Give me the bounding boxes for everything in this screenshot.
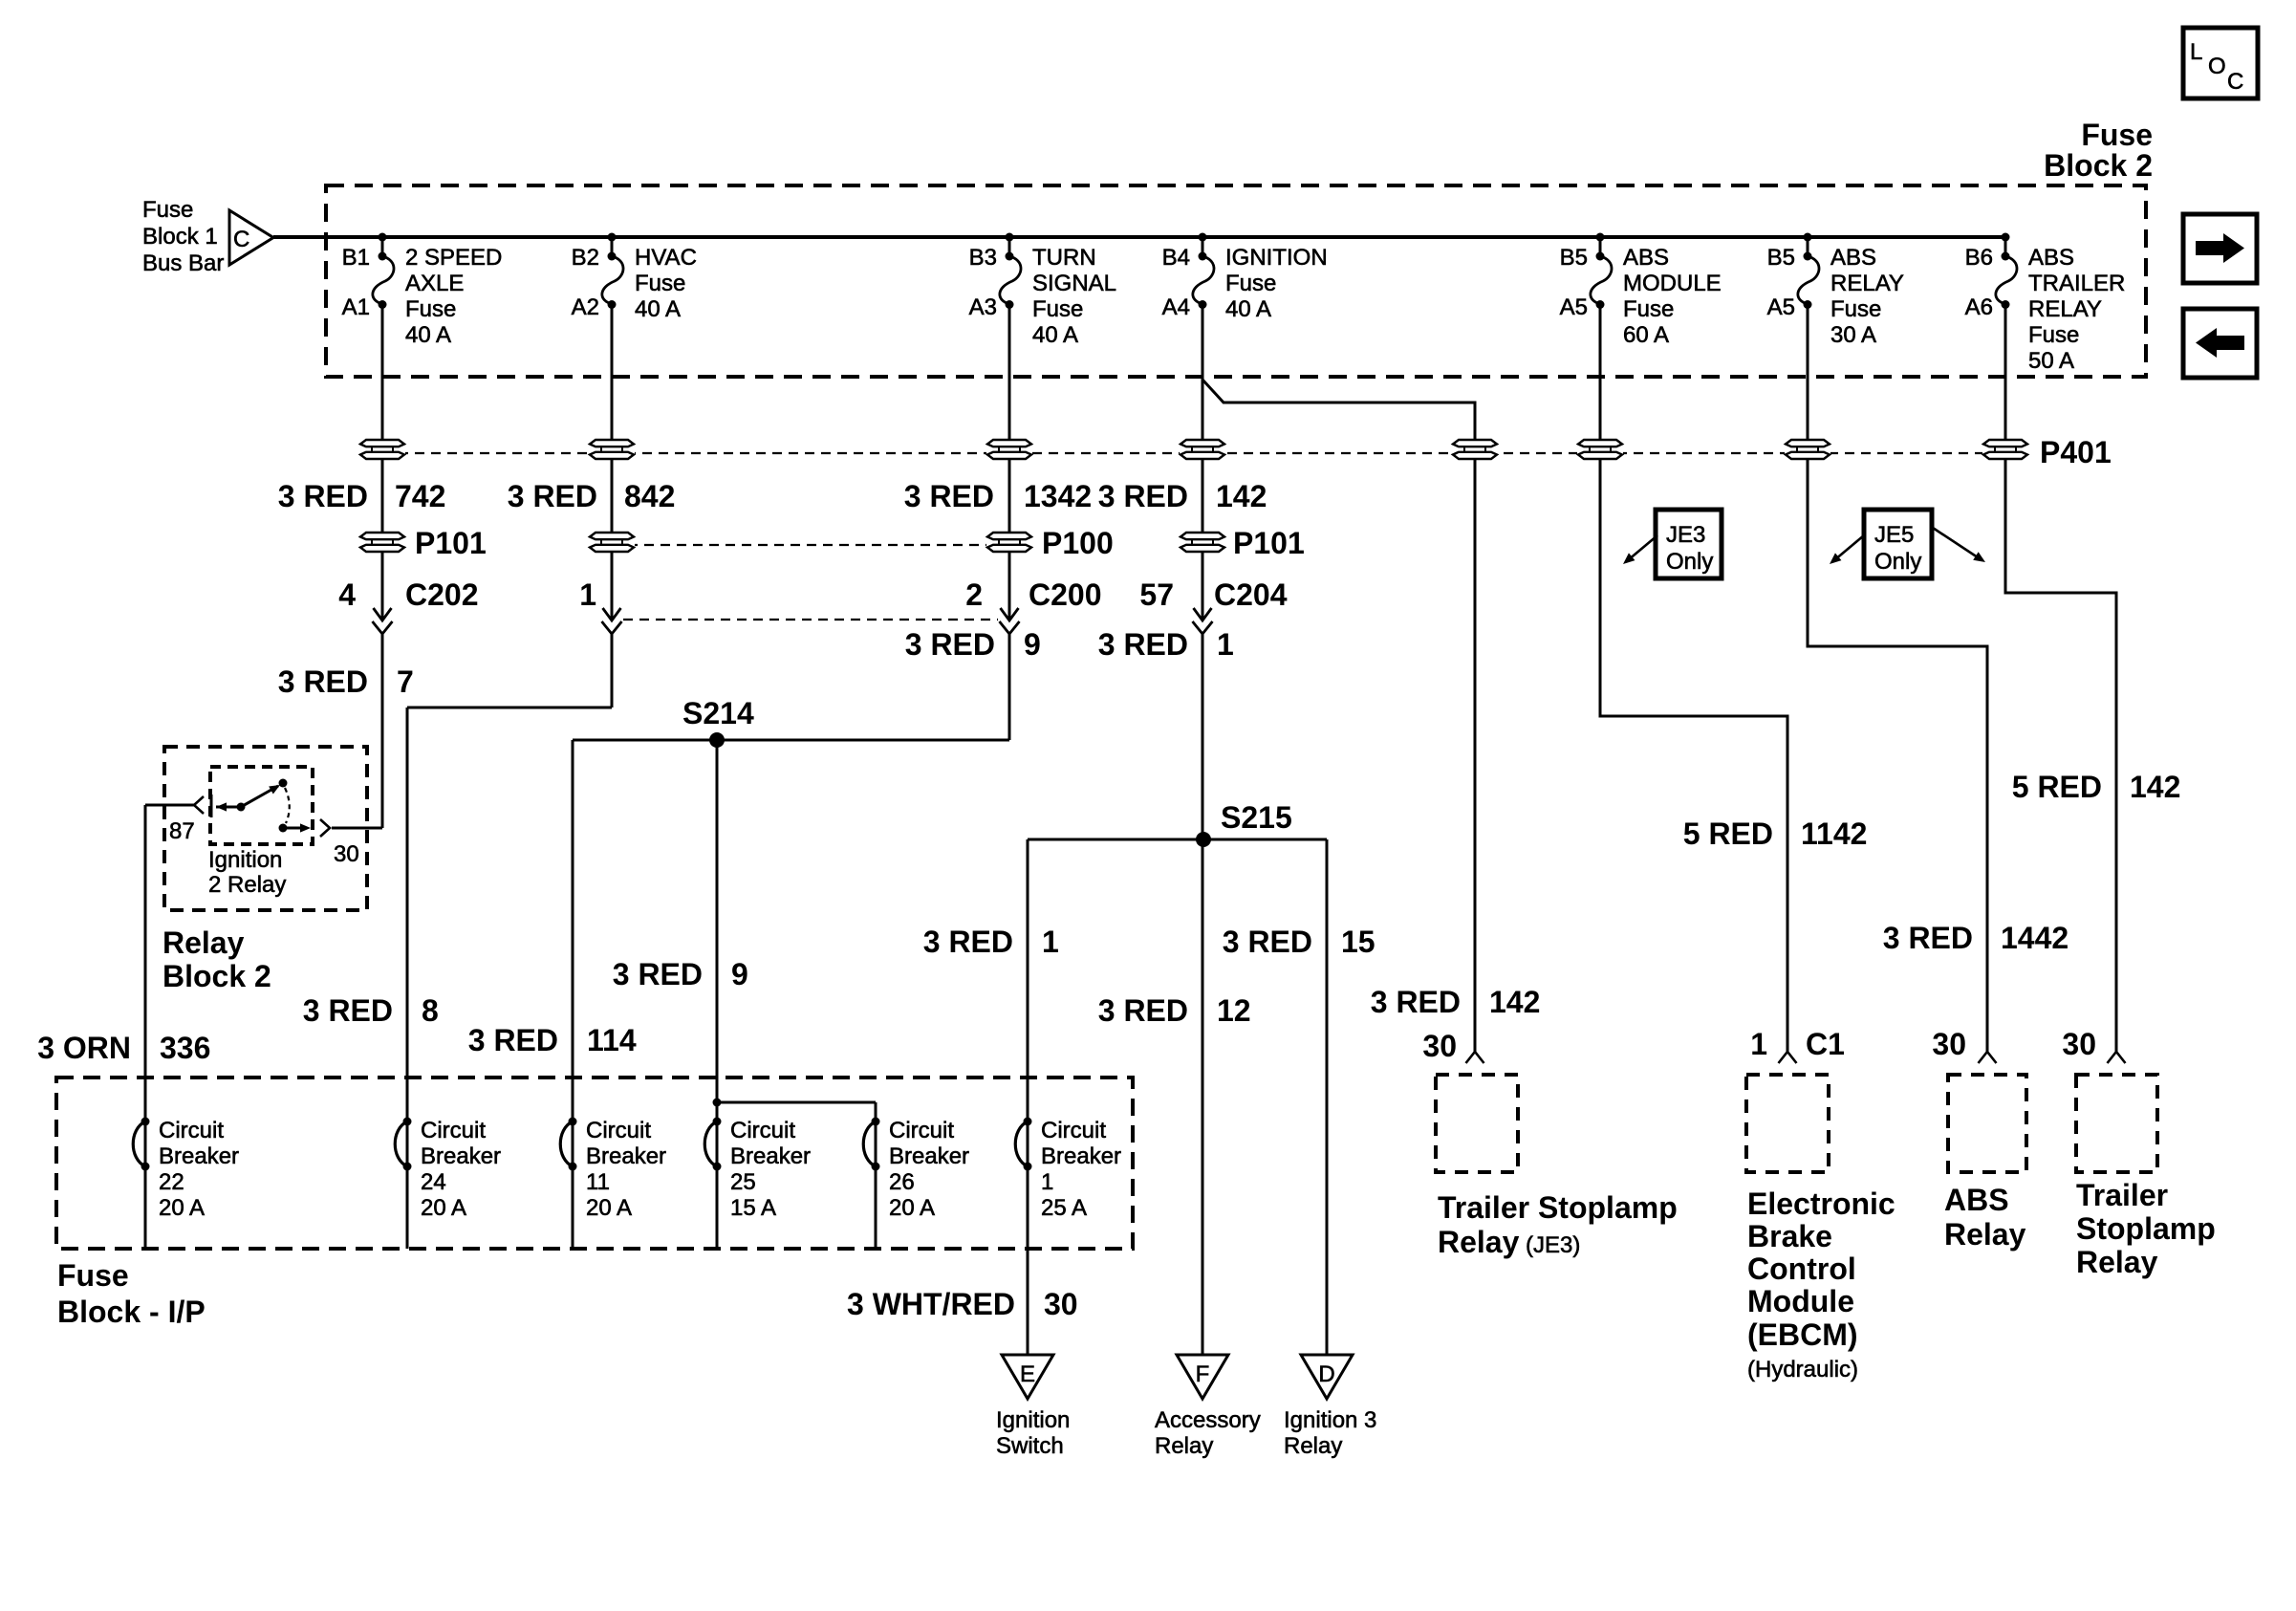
P100 dashed link	[612, 544, 1009, 546]
svg-text:P101: P101	[1233, 526, 1305, 560]
svg-text:842: 842	[624, 479, 675, 513]
svg-text:Fuse: Fuse	[57, 1258, 129, 1293]
svg-text:5 RED: 5 RED	[2012, 770, 2102, 804]
svg-text:A4: A4	[1162, 294, 1190, 320]
svg-text:Fuse: Fuse	[1032, 296, 1083, 322]
svg-text:Fuse: Fuse	[1623, 296, 1674, 322]
svg-text:Accessory: Accessory	[1155, 1407, 1261, 1433]
wire S214 down	[716, 740, 719, 1249]
svg-text:7: 7	[397, 664, 414, 699]
svg-text:(EBCM): (EBCM)	[1747, 1317, 1858, 1352]
svg-text:C204: C204	[1214, 577, 1288, 612]
svg-text:Block 2: Block 2	[162, 959, 271, 993]
svg-text:11: 11	[586, 1169, 610, 1195]
svg-text:1: 1	[1217, 627, 1234, 662]
fuse F3 TURN	[969, 233, 1116, 349]
svg-text:24: 24	[421, 1169, 446, 1195]
svg-text:114: 114	[587, 1023, 637, 1057]
connector P401 at x1674	[1577, 439, 1623, 460]
svg-text:Relay: Relay	[1155, 1433, 1213, 1459]
svg-text:C: C	[233, 227, 249, 252]
svg-text:30: 30	[334, 841, 359, 867]
svg-text:30: 30	[1422, 1029, 1457, 1063]
svg-text:3 RED: 3 RED	[1098, 993, 1188, 1028]
svg-text:Breaker: Breaker	[1041, 1143, 1121, 1169]
connector P401 at x2098	[1982, 439, 2028, 460]
connector P401 at x1258	[1180, 439, 1225, 460]
svg-text:Relay: Relay	[1438, 1225, 1520, 1259]
svg-text:9: 9	[1024, 627, 1041, 662]
relay movable contact	[237, 803, 246, 812]
svg-text:26: 26	[889, 1169, 915, 1195]
fuse F2 HVAC	[572, 233, 697, 323]
svg-text:40 A: 40 A	[635, 296, 681, 322]
inline connector at x640	[603, 608, 621, 620]
wire fuse5 branch	[1599, 237, 1602, 256]
svg-text:HVAC: HVAC	[635, 245, 697, 271]
svg-text:3 RED: 3 RED	[904, 479, 994, 513]
wire fuse1 branch	[381, 237, 384, 256]
connector P401 at x1056	[986, 439, 1032, 460]
circuit breaker 26	[863, 1118, 969, 1222]
trailer stoplamp relay JE3 box	[1466, 1052, 1484, 1063]
circuit breaker 11	[560, 1118, 666, 1222]
svg-text:142: 142	[1489, 985, 1540, 1019]
svg-text:3 RED: 3 RED	[1098, 627, 1188, 662]
svg-text:22: 22	[159, 1169, 184, 1195]
svg-text:40 A: 40 A	[1032, 322, 1078, 348]
svg-text:O: O	[2208, 54, 2226, 79]
svg-text:Fuse: Fuse	[2028, 322, 2079, 348]
svg-text:15: 15	[1341, 925, 1375, 959]
svg-text:25: 25	[730, 1169, 756, 1195]
JE5 pointer arrow left	[1834, 535, 1864, 560]
svg-text:MODULE: MODULE	[1623, 271, 1722, 296]
svg-text:RELAY: RELAY	[1830, 271, 1904, 296]
relay pin 87 terminal	[194, 796, 204, 814]
svg-text:E: E	[1020, 1361, 1035, 1387]
svg-text:C200: C200	[1029, 577, 1102, 612]
trailer stoplamp relay box	[2108, 1052, 2126, 1063]
svg-text:Brake: Brake	[1747, 1219, 1832, 1253]
fuse block 2 box	[326, 185, 2146, 377]
circuit breaker 22	[133, 1118, 239, 1222]
svg-text:F: F	[1196, 1361, 1210, 1387]
svg-text:TURN: TURN	[1032, 245, 1096, 271]
svg-text:60 A: 60 A	[1623, 322, 1669, 348]
svg-text:9: 9	[731, 957, 748, 991]
svg-text:A1: A1	[342, 294, 370, 320]
wire CB25-CB26 jumper	[717, 1101, 876, 1104]
svg-text:B3: B3	[969, 245, 997, 271]
off-page connector C	[229, 210, 273, 265]
svg-text:25 A: 25 A	[1041, 1195, 1087, 1221]
fuse F7 ABS	[1965, 233, 2126, 375]
EBCM box	[1779, 1052, 1797, 1063]
svg-text:1: 1	[1750, 1027, 1767, 1061]
svg-text:3 RED: 3 RED	[278, 664, 368, 699]
JE5 pointer arrow right	[1933, 528, 1981, 559]
svg-text:50 A: 50 A	[2028, 348, 2074, 374]
svg-text:C1: C1	[1806, 1027, 1845, 1061]
svg-text:3 RED: 3 RED	[1883, 921, 1973, 955]
JE3 pointer arrow	[1628, 535, 1657, 560]
svg-text:30: 30	[1932, 1027, 1966, 1061]
circuit breaker 1	[1015, 1118, 1121, 1222]
svg-text:D: D	[1318, 1361, 1334, 1387]
svg-text:Circuit: Circuit	[586, 1118, 651, 1143]
connector P401 at x400	[359, 439, 405, 460]
svg-text:A5: A5	[1560, 294, 1588, 320]
svg-text:3 RED: 3 RED	[508, 479, 597, 513]
svg-text:Fuse: Fuse	[405, 296, 456, 322]
svg-text:1342: 1342	[1024, 479, 1092, 513]
svg-text:3 RED: 3 RED	[468, 1023, 558, 1057]
connector P401 at x1891	[1785, 439, 1830, 460]
wire fuse4 diagonal to JE3 relay	[1202, 380, 1475, 1052]
svg-text:Ignition: Ignition	[208, 847, 282, 873]
relay block 2 outer box	[164, 747, 367, 910]
svg-text:Relay: Relay	[1284, 1433, 1342, 1459]
node S214	[709, 732, 725, 748]
svg-text:2 Relay: 2 Relay	[208, 872, 286, 898]
connector P401 at x1543	[1452, 439, 1498, 460]
svg-text:15 A: 15 A	[730, 1195, 776, 1221]
svg-text:Switch: Switch	[996, 1433, 1064, 1459]
off-page connector F	[1177, 1355, 1228, 1399]
node S215	[1196, 832, 1211, 847]
svg-text:1: 1	[1042, 925, 1059, 959]
svg-text:B1: B1	[342, 245, 370, 271]
svg-text:Trailer: Trailer	[2076, 1178, 2168, 1212]
svg-text:Control: Control	[1747, 1252, 1856, 1286]
inline connector at x400	[374, 608, 392, 620]
wire fuse2 branch	[611, 237, 614, 256]
svg-text:2 SPEED: 2 SPEED	[405, 245, 502, 271]
svg-text:IGNITION: IGNITION	[1225, 245, 1328, 271]
svg-text:1: 1	[1041, 1169, 1053, 1195]
LOC box	[2183, 28, 2258, 98]
wire S214 bar	[573, 739, 1009, 742]
svg-text:Fuse: Fuse	[635, 271, 685, 296]
svg-text:Fuse: Fuse	[1225, 271, 1276, 296]
svg-text:Relay: Relay	[1944, 1217, 2026, 1252]
svg-text:AXLE: AXLE	[405, 271, 464, 296]
svg-text:20 A: 20 A	[421, 1195, 466, 1221]
svg-text:SIGNAL: SIGNAL	[1032, 271, 1116, 296]
fuse F5 ABS	[1560, 233, 1722, 349]
svg-text:3 ORN: 3 ORN	[37, 1031, 131, 1065]
off-page connector E	[1002, 1355, 1053, 1399]
svg-text:Fuse: Fuse	[2081, 118, 2153, 152]
svg-text:Block - I/P: Block - I/P	[57, 1295, 206, 1329]
svg-text:3 RED: 3 RED	[1371, 985, 1461, 1019]
svg-text:Ignition 3: Ignition 3	[1284, 1407, 1376, 1433]
wire fuse3 branch	[1008, 237, 1011, 256]
svg-text:A2: A2	[572, 294, 599, 320]
svg-text:B5: B5	[1767, 245, 1795, 271]
svg-text:JE5: JE5	[1874, 522, 1914, 548]
svg-text:30: 30	[1044, 1287, 1078, 1321]
fuse F1 2 SPEED	[342, 233, 503, 349]
svg-text:A6: A6	[1965, 294, 1993, 320]
JE3 Only box	[1656, 510, 1722, 578]
svg-text:142: 142	[2130, 770, 2180, 804]
right arrow box	[2183, 214, 2257, 283]
svg-text:5 RED: 5 RED	[1683, 816, 1773, 851]
svg-text:3 RED: 3 RED	[613, 957, 703, 991]
svg-text:ABS: ABS	[1623, 245, 1669, 271]
svg-text:1: 1	[579, 577, 596, 612]
ABS relay box	[1979, 1052, 1997, 1063]
svg-text:Module: Module	[1747, 1284, 1854, 1318]
svg-text:(JE3): (JE3)	[1526, 1232, 1580, 1258]
svg-text:S214: S214	[682, 696, 754, 730]
svg-text:Fuse: Fuse	[142, 197, 193, 223]
ignition 2 relay inner box	[210, 767, 313, 844]
svg-text:Breaker: Breaker	[586, 1143, 666, 1169]
wire fuse7 branch	[2004, 237, 2007, 256]
svg-text:(Hydraulic): (Hydraulic)	[1747, 1357, 1858, 1382]
svg-text:Circuit: Circuit	[889, 1118, 954, 1143]
fuse block I/P box	[56, 1078, 1133, 1249]
inline connector at x1056	[1001, 608, 1019, 620]
wire relay30 to wire1	[332, 827, 382, 830]
svg-text:P101: P101	[415, 526, 487, 560]
JE5 Only box	[1864, 510, 1932, 578]
svg-text:TRAILER: TRAILER	[2028, 271, 2125, 296]
svg-text:57: 57	[1139, 577, 1174, 612]
svg-text:Breaker: Breaker	[159, 1143, 239, 1169]
P401 dashed link	[382, 452, 2005, 454]
svg-text:Only: Only	[1666, 549, 1713, 575]
svg-text:P401: P401	[2040, 435, 2112, 469]
svg-text:A5: A5	[1767, 294, 1795, 320]
svg-text:ABS: ABS	[1830, 245, 1876, 271]
svg-text:3 RED: 3 RED	[278, 479, 368, 513]
svg-text:Breaker: Breaker	[730, 1143, 811, 1169]
relay dashed throw arc	[285, 788, 290, 823]
svg-text:ABS: ABS	[1944, 1183, 2009, 1217]
svg-text:Circuit: Circuit	[1041, 1118, 1106, 1143]
svg-text:Relay: Relay	[162, 925, 245, 960]
connector P401 at x640	[589, 439, 635, 460]
svg-text:336: 336	[160, 1031, 210, 1065]
connector P10x at x640	[589, 532, 635, 553]
svg-text:4: 4	[338, 577, 356, 612]
connector P10x at x400	[359, 532, 405, 553]
svg-text:20 A: 20 A	[159, 1195, 205, 1221]
relay pin 30 terminal	[279, 824, 288, 833]
svg-text:Trailer Stoplamp: Trailer Stoplamp	[1438, 1190, 1678, 1225]
circuit breaker 25	[704, 1118, 811, 1222]
C-row dashed link	[623, 619, 998, 620]
svg-text:B2: B2	[572, 245, 599, 271]
svg-text:Block 2: Block 2	[2044, 148, 2153, 183]
svg-text:742: 742	[395, 479, 445, 513]
svg-text:Circuit: Circuit	[730, 1118, 795, 1143]
svg-text:2: 2	[965, 577, 983, 612]
wire fuse4 branch	[1202, 237, 1204, 256]
svg-text:C202: C202	[405, 577, 479, 612]
svg-text:30 A: 30 A	[1830, 322, 1876, 348]
left arrow box	[2183, 309, 2257, 378]
svg-text:Relay: Relay	[2076, 1245, 2158, 1279]
svg-text:40 A: 40 A	[405, 322, 451, 348]
bus bar wire	[273, 235, 2005, 239]
fuse F6 ABS	[1767, 233, 1904, 349]
connector P10x at x1258	[1180, 532, 1225, 553]
svg-text:Breaker: Breaker	[421, 1143, 501, 1169]
off-page connector D	[1301, 1355, 1353, 1399]
svg-text:RELAY: RELAY	[2028, 296, 2102, 322]
svg-text:3 RED: 3 RED	[923, 925, 1013, 959]
svg-text:B6: B6	[1965, 245, 1993, 271]
svg-text:P100: P100	[1042, 526, 1114, 560]
svg-text:20 A: 20 A	[586, 1195, 632, 1221]
svg-text:3 RED: 3 RED	[905, 627, 995, 662]
svg-text:S215: S215	[1221, 800, 1292, 835]
svg-text:Only: Only	[1874, 549, 1921, 575]
svg-text:87: 87	[169, 818, 195, 844]
svg-text:JE3: JE3	[1666, 522, 1705, 548]
svg-text:Circuit: Circuit	[421, 1118, 486, 1143]
fuse F4 IGNITION	[1162, 233, 1328, 323]
wire S215 bar	[1028, 838, 1327, 841]
svg-text:Fuse: Fuse	[1830, 296, 1881, 322]
svg-text:A3: A3	[969, 294, 997, 320]
svg-text:1442: 1442	[2001, 921, 2069, 955]
svg-text:Circuit: Circuit	[159, 1118, 224, 1143]
svg-text:3 RED: 3 RED	[303, 993, 393, 1028]
svg-text:12: 12	[1217, 993, 1251, 1028]
svg-text:40 A: 40 A	[1225, 296, 1271, 322]
junction dot CB25 jumper	[713, 1099, 722, 1107]
svg-text:B5: B5	[1560, 245, 1588, 271]
svg-text:L: L	[2190, 39, 2202, 65]
svg-text:142: 142	[1216, 479, 1267, 513]
svg-text:Stoplamp: Stoplamp	[2076, 1211, 2216, 1246]
svg-text:C: C	[2227, 69, 2243, 95]
svg-text:Block 1: Block 1	[142, 224, 218, 250]
circuit breaker 24	[395, 1118, 501, 1222]
wire relay87 to CB22	[145, 804, 194, 807]
inline connector at x1258	[1194, 608, 1212, 620]
svg-text:8: 8	[422, 993, 439, 1028]
svg-text:Ignition: Ignition	[996, 1407, 1070, 1433]
svg-text:3 RED: 3 RED	[1098, 479, 1188, 513]
svg-text:Electronic: Electronic	[1747, 1186, 1895, 1221]
svg-text:3 WHT/RED: 3 WHT/RED	[847, 1287, 1015, 1321]
svg-text:ABS: ABS	[2028, 245, 2074, 271]
svg-text:3 RED: 3 RED	[1223, 925, 1312, 959]
svg-text:Breaker: Breaker	[889, 1143, 969, 1169]
svg-text:30: 30	[2062, 1027, 2096, 1061]
svg-text:B4: B4	[1162, 245, 1190, 271]
svg-text:20 A: 20 A	[889, 1195, 935, 1221]
svg-text:Bus Bar: Bus Bar	[142, 250, 224, 276]
svg-text:1142: 1142	[1801, 816, 1867, 851]
connector P10x at x1056	[986, 532, 1032, 553]
wire fuse6 branch	[1807, 237, 1809, 256]
